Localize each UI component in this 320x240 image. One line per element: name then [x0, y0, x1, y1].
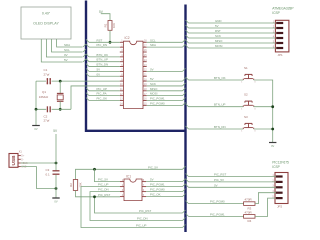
wire 5V rail lower	[55, 175, 57, 198]
wire net PIC_PGM1 bus B2 to R4	[186, 213, 189, 216]
junction crystal top	[59, 80, 62, 83]
connector JP1 pin 3 head	[276, 32, 283, 34]
wire net PIC_PA bus B1 to IC2 pin 12	[86, 93, 89, 96]
wire net SCK bus B2 to JP1 pin 4	[186, 35, 189, 38]
svg-text:SCK: SCK	[215, 34, 221, 38]
wire net BTN_DN bus B2 to S3	[186, 126, 189, 129]
wire net 0V bus B1 to IC2 pin 8	[86, 73, 89, 76]
svg-text:PIC_RST: PIC_RST	[214, 173, 226, 177]
svg-text:S1: S1	[244, 66, 248, 70]
svg-text:S2: S2	[244, 93, 248, 97]
junction R1/RST	[109, 41, 112, 44]
wire XTAL1 net: C1 row to IC2 pin 9, crossing bus B1	[36, 80, 120, 82]
crystal Q1 plates and body	[57, 92, 64, 94]
svg-text:470R: 470R	[245, 210, 253, 214]
wire net BTN_UP bus B1 to IC2 pin 5	[86, 59, 89, 62]
svg-text:0V: 0V	[214, 183, 218, 187]
switch S2	[248, 101, 250, 105]
svg-text:0V: 0V	[34, 127, 37, 131]
wire net 5V IC1 pin 8 to bus B2	[146, 181, 183, 183]
svg-text:PIC_OK: PIC_OK	[150, 193, 161, 197]
svg-text:PIC_PGM0: PIC_PGM0	[150, 101, 165, 105]
wire net 5V bus B1 to IC2 pin 7	[86, 68, 89, 71]
wire net PIC_DN bus B1 to IC2 pin 2	[86, 44, 89, 47]
wire OLED pin4 net SDA to bus B1	[57, 39, 83, 47]
wire 5V supply to R1 top	[101, 14, 110, 21]
wire net MOSI bus B2 to JP1 pin 6	[186, 45, 189, 48]
svg-text:PIC_PGM1: PIC_PGM1	[150, 183, 165, 187]
svg-text:GND: GND	[215, 19, 221, 23]
wire OLED pin2 net 0V to bus B1	[46, 39, 82, 57]
USB pin VBUS	[18, 162, 21, 164]
svg-text:SCK: SCK	[150, 82, 156, 86]
wire PIC_5V down to IC1 pin1 row	[95, 169, 121, 181]
wire net 5V bus B2 to JP1 pin 2	[186, 25, 189, 28]
svg-text:C3: C3	[46, 168, 50, 172]
svg-text:0V: 0V	[150, 67, 154, 71]
wire R3 to JP2 pin4	[255, 193, 276, 204]
svg-text:ATMEGA328P: ATMEGA328P	[272, 7, 294, 11]
connector JP2 pin 4 head	[276, 192, 283, 194]
svg-text:10K: 10K	[112, 23, 116, 28]
bus B1 (vertical left, bends right to join B2)	[86, 1, 186, 131]
wire net PIC_PGM1 IC2 pin 16 to bus B2	[147, 100, 183, 102]
resistor R2	[73, 180, 77, 191]
svg-text:0V: 0V	[271, 144, 274, 148]
junction VBUS/5V rail	[55, 162, 58, 165]
capacitor C1 plates	[46, 78, 48, 84]
svg-text:R1: R1	[104, 23, 108, 27]
wire net MISO bus B2 to JP1 pin 5	[186, 40, 189, 43]
svg-text:PIC12F675: PIC12F675	[272, 161, 289, 165]
USB pin D-	[18, 158, 21, 160]
svg-text:MISO: MISO	[215, 39, 223, 43]
svg-text:IC1: IC1	[126, 175, 131, 179]
resistor R3	[244, 202, 255, 206]
svg-text:MOSI: MOSI	[150, 92, 158, 96]
junction PIC_5V feed to IC1 pin 1	[93, 168, 96, 171]
svg-text:ICSP: ICSP	[272, 11, 280, 15]
svg-text:0.1: 0.1	[46, 172, 51, 176]
wire net MOSI IC2 pin 17 to bus B2	[147, 95, 183, 97]
wire S3 to gnd rail	[254, 128, 273, 130]
connector JP2 pin 3 head	[276, 186, 283, 188]
svg-text:SDA: SDA	[150, 43, 156, 47]
wire 5V rail upper	[55, 134, 57, 170]
connector JP2 box	[275, 173, 288, 204]
svg-text:PIC_OK: PIC_OK	[97, 97, 108, 101]
wire net PIC_UP IC1 pin2 to bus B2 (around bottom)	[81, 187, 183, 228]
svg-text:5V: 5V	[97, 67, 101, 71]
junction gnd node	[55, 187, 58, 190]
wire net PIC_RST IC1 pin4 to bus B2 (around bottom)	[95, 196, 121, 198]
wire net RST bus B2 to JP1 pin 3	[186, 30, 189, 33]
svg-text:PIC_PGM1: PIC_PGM1	[150, 97, 165, 101]
junction crystal bottom	[59, 108, 62, 111]
svg-text:PIC_PA: PIC_PA	[97, 92, 107, 96]
wire S1 to gnd rail	[254, 80, 273, 142]
OLED display module DISP1 box	[21, 7, 71, 39]
wire net BTN_OK bus B2 to S1	[186, 77, 189, 80]
connector JP1 pin 1 head	[276, 22, 283, 24]
connector JP1 pin 2 head	[276, 27, 283, 29]
svg-text:5V: 5V	[215, 24, 219, 28]
svg-text:BTN_OK: BTN_OK	[214, 76, 226, 80]
svg-text:R4: R4	[248, 219, 252, 223]
svg-text:PIC_UP: PIC_UP	[136, 224, 147, 228]
wire down to ground	[35, 109, 37, 125]
svg-text:PIC_5V: PIC_5V	[214, 178, 224, 182]
wire net SCK IC2 pin 19 to bus B2	[147, 85, 183, 87]
svg-text:PIC_PGM1: PIC_PGM1	[210, 212, 225, 216]
svg-text:SDA: SDA	[64, 43, 70, 47]
switch S1	[248, 74, 250, 78]
wire net PIC_5V: R2 top corner to bus B2	[76, 169, 183, 179]
svg-text:Q1: Q1	[42, 90, 46, 94]
USB pin D+	[18, 155, 21, 157]
svg-text:MOSI: MOSI	[215, 44, 223, 48]
wire net 5V IC2 pin 20 to bus B2	[147, 80, 183, 82]
connector JP1 pin 4 head	[276, 37, 283, 39]
IC1 pin stub 6	[142, 191, 146, 193]
IC1 pin stub 3	[120, 191, 124, 193]
svg-text:OLED DISPLAY: OLED DISPLAY	[33, 22, 59, 26]
svg-text:PIC_DN: PIC_DN	[97, 43, 108, 47]
svg-text:0V: 0V	[97, 72, 101, 76]
wire net BTN_DN bus B1 to IC2 pin 6	[86, 64, 89, 67]
connector JP1 pin 6 head	[276, 47, 283, 49]
wire net 0V bus B2 to JP2 pin3	[186, 184, 189, 187]
svg-text:470R: 470R	[245, 198, 253, 202]
svg-text:RST: RST	[97, 38, 103, 42]
wire net PIC_PGM0 IC1 pin 6 to bus B2	[146, 191, 183, 193]
svg-text:USB: USB	[11, 155, 17, 166]
svg-text:SCL: SCL	[64, 48, 70, 52]
ground symbol (USB rail)	[52, 197, 59, 199]
wire XTAL2 net: C2 row to corner, up, to IC2 pin 10, crossing bus B1	[36, 108, 71, 110]
svg-text:0V: 0V	[54, 199, 57, 203]
svg-text:D-: D-	[21, 159, 24, 161]
svg-text:5V: 5V	[150, 178, 154, 182]
svg-text:PIC_DN: PIC_DN	[98, 188, 109, 192]
svg-text:BTN_DN: BTN_DN	[214, 125, 226, 129]
wire net PIC_OK IC1 pin 5 to bus B2	[146, 196, 183, 198]
wire net RST bus B1 to IC2 pin 1	[86, 39, 89, 42]
resistor R1	[108, 21, 112, 31]
wire net SDA IC2 pin 27 to bus B2	[147, 46, 183, 48]
connector JP2 pin 5 head	[276, 197, 283, 199]
svg-text:5V: 5V	[64, 58, 68, 62]
switch S3	[248, 123, 250, 127]
svg-text:S3: S3	[244, 115, 248, 119]
svg-text:PIC_DN: PIC_DN	[137, 217, 148, 221]
wire net PIC_OK bus B1 to IC2 pin 13	[86, 98, 89, 101]
svg-text:5V: 5V	[150, 77, 154, 81]
wire crystal vertical bottom	[59, 101, 61, 109]
svg-text:RST: RST	[215, 29, 221, 33]
svg-text:IC2: IC2	[125, 36, 130, 40]
svg-text:27pf: 27pf	[44, 72, 50, 76]
svg-text:BTN_UP: BTN_UP	[97, 58, 108, 62]
junction S2/gnd rail	[271, 105, 274, 108]
wire net MISO IC2 pin 18 to bus B2	[147, 90, 183, 92]
svg-text:0.49": 0.49"	[42, 12, 51, 16]
svg-text:JP1: JP1	[278, 53, 284, 57]
IC2 pin stubs left (pins 1-14)	[120, 41, 124, 43]
wire net GND bus B2 to JP1 pin 1	[186, 20, 189, 23]
wire net BTN_UP bus B2 to S2	[186, 104, 189, 107]
wire net PIC_PGM0 bus B2 to R3	[186, 201, 189, 204]
wire net 0V IC2 pin 22 to bus B2	[147, 70, 183, 72]
wire USB GND to gnd node	[21, 167, 56, 189]
IC1 pin stub 7	[142, 186, 146, 188]
capacitor C2 plates	[46, 108, 51, 110]
svg-text:BTN_OK: BTN_OK	[97, 53, 109, 57]
IC1 pin stub 4	[120, 196, 124, 198]
wire net PIC_PGM0 IC2 pin 15 to bus B2	[147, 104, 183, 106]
svg-text:PIC_PGM0: PIC_PGM0	[150, 188, 165, 192]
IC1 pin stub 5	[142, 196, 146, 198]
wire crystal vertical top	[59, 81, 61, 93]
IC2 pin stubs right (pins 15-28)	[143, 41, 147, 43]
IC1 pin stub 1	[120, 181, 124, 183]
ground symbol (buttons)	[269, 142, 276, 144]
ground symbol (crystal)	[32, 125, 40, 127]
svg-text:27pf: 27pf	[44, 119, 50, 123]
connector JP1 pin 5 head	[276, 42, 283, 44]
IC1 pin stub 8	[142, 181, 146, 183]
connector JP2 pin 2 head	[276, 181, 283, 183]
bus B2 (vertical right)	[184, 5, 186, 233]
connector JP1 box	[275, 20, 289, 52]
op IC2 ATmega328 body	[124, 41, 144, 108]
svg-text:R2: R2	[69, 183, 73, 187]
wire net PIC_DN IC1 pin3 to bus B2 (around bottom)	[90, 192, 183, 221]
wire R4 to JP2 pin5	[255, 198, 276, 216]
USB pin GND	[18, 166, 21, 168]
connector JP2 pin 1 head	[276, 175, 283, 177]
svg-text:PIC_UP: PIC_UP	[98, 183, 109, 187]
wire OLED pin1 net 5V to bus B1	[41, 39, 82, 62]
wire OLED pin3 net SCL to bus B1	[52, 39, 83, 52]
wire net PIC_UP bus B1 to IC2 pin 11	[86, 88, 89, 91]
svg-text:PIC_PGM0: PIC_PGM0	[210, 200, 225, 204]
svg-text:C1: C1	[44, 68, 48, 72]
junction S3/gnd rail	[271, 128, 274, 131]
svg-text:MISO: MISO	[150, 87, 158, 91]
capacitor C3 plates	[53, 170, 60, 172]
wire net PIC_RST bus B2 to JP2 pin1	[186, 174, 189, 177]
resistor R4	[244, 215, 255, 219]
wire R1 bottom to RST net	[109, 30, 111, 42]
wire net PIC_PGM1 IC1 pin 7 to bus B2	[146, 186, 183, 188]
svg-text:PIC_UP: PIC_UP	[97, 87, 108, 91]
IC1 pin stub 2	[120, 186, 124, 188]
svg-text:PIC_RST: PIC_RST	[98, 193, 110, 197]
wire R2 bottom to PIC_RST row	[76, 190, 95, 196]
svg-text:ICSP: ICSP	[272, 165, 280, 169]
op IC1 PIC12F675 body	[124, 179, 142, 201]
svg-text:BTN_DN: BTN_DN	[97, 63, 109, 67]
wire gnd rail left of crystal	[35, 81, 37, 109]
wire S2 to gnd rail	[254, 106, 273, 108]
wire net BTN_OK bus B1 to IC2 pin 4	[86, 54, 89, 57]
wire net SCL IC2 pin 28 to bus B2	[147, 41, 183, 43]
svg-text:0V: 0V	[64, 53, 68, 57]
junction gnd rail	[35, 108, 38, 111]
svg-text:PIC_5V: PIC_5V	[148, 165, 158, 169]
svg-text:JP2: JP2	[277, 205, 283, 209]
wire USB VBUS to 5V rail	[21, 162, 56, 164]
svg-text:16MHz: 16MHz	[39, 95, 49, 99]
svg-text:SCL: SCL	[150, 38, 156, 42]
junction PIC_RST/R2	[93, 195, 96, 198]
svg-text:BTN_UP: BTN_UP	[214, 103, 225, 107]
connector X1 USB box	[9, 154, 18, 168]
svg-text:PIC_5V: PIC_5V	[98, 178, 108, 182]
wire net PIC_5V bus B2 to JP2 pin2	[186, 179, 189, 182]
svg-text:PIC_RST: PIC_RST	[139, 209, 151, 213]
